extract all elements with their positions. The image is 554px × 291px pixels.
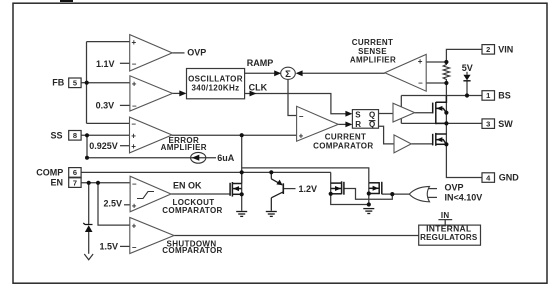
comparator U2 oscillator input [96,76,173,111]
node dot FB [85,81,89,85]
pin box 4 GND [482,173,519,183]
wire RAMP [245,72,277,74]
node dot error amp out [240,133,244,137]
wire IN tick into regulators [438,220,452,226]
arrowhead cs amp into sigma [296,70,303,76]
ground under Q1 [266,212,277,217]
wire 0.3V stub [120,104,130,106]
node dot low mosfet source [444,142,448,146]
wire FB bus top to OVP comp + [87,41,130,43]
wire 1.5V stub [120,245,130,247]
svg-text:–: – [132,179,137,188]
wire 5V label stub [466,72,468,75]
svg-text:0.3V: 0.3V [96,101,115,111]
svg-text:SENSE: SENSE [358,47,387,56]
svg-text:R: R [355,120,361,129]
node dot M2 source [329,192,333,196]
svg-text:Q: Q [369,120,376,129]
comparator U1 OVP [96,35,206,71]
wire OR input OVP stub [428,188,437,190]
node dot SS [85,133,89,137]
arrowhead into latch S [345,111,352,117]
node dot SW [444,121,448,125]
pin box 6 COMP [36,167,81,177]
wire FB bus bottom to error amp - [87,122,130,124]
wire OVP output [172,52,184,54]
latch U6 SR [352,110,378,130]
wire M1 axis [241,172,243,211]
resistor R1 [443,62,449,83]
transistor M1 lockout mosfet [230,182,242,197]
buffer driver U8 low [394,135,411,153]
buffer driver U7 high [393,103,415,122]
wire 0.925V stub [120,145,130,147]
svg-text:5: 5 [73,79,77,88]
svg-text:1: 1 [486,91,490,100]
node dot high mosfet body [444,111,448,115]
wire VIN pin to column [446,49,482,62]
svg-text:+: + [132,38,137,47]
arrowhead CLK mid [250,91,257,97]
arrowhead RAMP into sigma [274,70,281,76]
wire driver1 bottom stub to SW rail [400,118,402,123]
svg-text:2: 2 [486,45,490,54]
svg-text:INTERNAL: INTERNAL [426,224,471,234]
wire CLK to latch S [245,94,348,114]
wire latch Q to driver1 [379,113,394,115]
wire M2 gate tie [344,189,392,200]
wire FB to osc comp + [87,82,130,84]
svg-text:+: + [418,57,423,66]
svg-text:6: 6 [73,168,77,177]
node dot M3 source [367,191,371,195]
svg-text:EN OK: EN OK [173,181,202,191]
wire SS branch down to 6uA line [86,135,88,157]
svg-text:3: 3 [486,119,490,128]
wire osc comp output [173,92,182,94]
wire SW rail [401,122,482,124]
wire 2.5V stub [124,204,130,206]
transistor M2 comp clamp mosfet [331,181,344,194]
node dot EN a [87,181,91,185]
wire EN line [81,182,130,184]
svg-text:AMPLIFIER: AMPLIFIER [350,56,396,65]
wire EN OK to M1 gate [171,193,230,195]
wire OR gate output line [382,193,410,195]
wire driver1 top stub to BS rail [400,96,402,107]
ground under M2 M3 [363,209,374,214]
wire SS line to error amp [81,134,130,136]
wire BS rail [401,95,482,97]
node dot 6uA line [85,156,89,160]
wire cs amp plus input [426,61,446,63]
arrowhead into oscillator [179,90,186,96]
svg-text:+: + [299,131,304,140]
wire 5V diode to BS line [466,81,468,95]
svg-text:–: – [132,59,137,68]
wire latch Qbar to driver2 [379,126,395,144]
oscillator box [187,69,245,99]
svg-text:–: – [132,102,137,111]
svg-text:–: – [418,79,423,88]
svg-text:AMPLIFIER: AMPLIFIER [161,143,207,152]
wire OR input IN stub [428,196,437,198]
current comparator U5 [297,106,374,150]
svg-text:1.2V: 1.2V [299,184,318,194]
node dot resistor top [444,60,448,64]
svg-text:OVP: OVP [445,183,464,193]
ground under M1 [236,212,247,217]
svg-text:–: – [299,112,304,121]
node dot diode BS [465,93,469,97]
svg-text:CLK: CLK [249,83,268,93]
svg-text:5V: 5V [462,63,473,73]
svg-text:IN: IN [441,211,450,220]
wire zener to ground arrow [88,232,90,254]
svg-text:8: 8 [73,131,77,140]
pin box 2 VIN [482,44,513,54]
svg-text:–: – [132,120,137,129]
shutdown comparator U10 [99,218,222,256]
wire FB pin to bus [81,82,87,84]
svg-text:+: + [132,201,137,210]
node dot EN b [96,181,100,185]
transistor M3 ovp mosfet [369,182,382,194]
pin box 7 EN [50,178,81,188]
svg-text:OSCILLATOR: OSCILLATOR [188,75,243,84]
svg-text:OVP: OVP [187,48,206,58]
node dot gnd run [367,202,371,206]
svg-text:BS: BS [498,91,511,101]
lockout comparator U9 [103,176,222,215]
svg-text:COMPARATOR: COMPARATOR [162,246,222,255]
wire driver2 to low gate [411,143,433,145]
cropped heading fragment [60,0,73,2]
svg-text:1.5V: 1.5V [99,242,118,252]
wire 1.2V base stub [283,188,295,190]
svg-text:+: + [132,222,137,231]
pin box 8 SS [50,130,81,140]
svg-text:340/120KHz: 340/120KHz [192,83,240,92]
svg-text:VIN: VIN [498,44,513,54]
svg-text:RAMP: RAMP [247,58,273,68]
svg-text:+: + [132,79,137,88]
svg-text:CURRENT: CURRENT [325,133,367,142]
svg-text:COMPARATOR: COMPARATOR [162,206,222,215]
svg-text:REGULATORS: REGULATORS [420,233,478,242]
wire cs amp minus input [426,82,446,84]
svg-text:2.5V: 2.5V [103,198,122,208]
wire error amp vertical branch [241,135,243,183]
diode D1 5V [462,63,473,81]
svg-text:+: + [131,132,136,141]
wire M3 axis [368,183,370,205]
svg-text:Q: Q [369,110,376,119]
wire EN branch to shutdown comp plus [98,183,130,225]
svg-text:COMP: COMP [36,167,63,177]
wire COMP line [81,171,331,173]
pin box 3 SW [482,119,513,129]
svg-text:IN<4.10V: IN<4.10V [445,193,483,203]
summing node sigma [281,67,296,80]
wire comp upper branch to M3 [242,168,369,183]
svg-text:–: – [132,243,137,252]
arrowhead into latch R [345,122,352,128]
svg-text:6uA: 6uA [217,153,235,163]
svg-text:COMPARATOR: COMPARATOR [313,142,373,151]
wire 6uA line [87,157,216,159]
svg-text:7: 7 [73,178,77,187]
wire vin column resistor to drain run [446,83,482,178]
wire M2 axis and ground run [331,172,369,204]
wire current sense amp output to sigma [300,72,385,74]
pin box 5 FB [52,78,81,88]
svg-text:EN: EN [50,178,63,188]
zener diode D2 [83,223,92,232]
svg-text:S: S [355,110,361,119]
transistor Q3 low side mosfet [433,133,447,146]
wire FB bus vertical [86,42,88,124]
transistor Q2 high side mosfet [433,96,447,125]
svg-text:CURRENT: CURRENT [352,38,394,47]
svg-text:SW: SW [498,119,513,129]
wire error amp output to current comparator plus [172,134,297,136]
internal regulators box [419,211,481,245]
wire sigma to current comparator minus [288,79,297,115]
node dot resistor bottom [444,81,448,85]
error amplifier U3 [89,117,207,153]
node dot OR output [390,192,394,196]
node dot M1 source [240,192,244,196]
svg-text:+: + [131,142,136,151]
svg-text:1.1V: 1.1V [96,59,115,69]
transistor Q1 PNP 1.2V clamp [271,172,283,211]
svg-text:GND: GND [499,173,520,183]
pin box 1 BS [482,91,511,101]
wire 1.1V stub [120,62,130,64]
current sense amplifier U4 [350,38,426,91]
wire driver1 to high gate [415,112,433,114]
svg-text:FB: FB [52,78,64,88]
node dot COMP a [240,170,244,174]
svg-text:0.925V: 0.925V [89,141,118,151]
svg-text:SS: SS [50,130,62,140]
OR gate U11 [409,183,482,203]
wire zener branch vertical [88,183,90,224]
wire shutdown comparator output [174,235,419,237]
wire current comparator output to latch R [338,123,347,125]
ground arrow under zener [84,254,93,260]
svg-text:Σ: Σ [285,69,291,80]
current source 6uA [191,152,235,163]
node dot COMP b [269,170,273,174]
